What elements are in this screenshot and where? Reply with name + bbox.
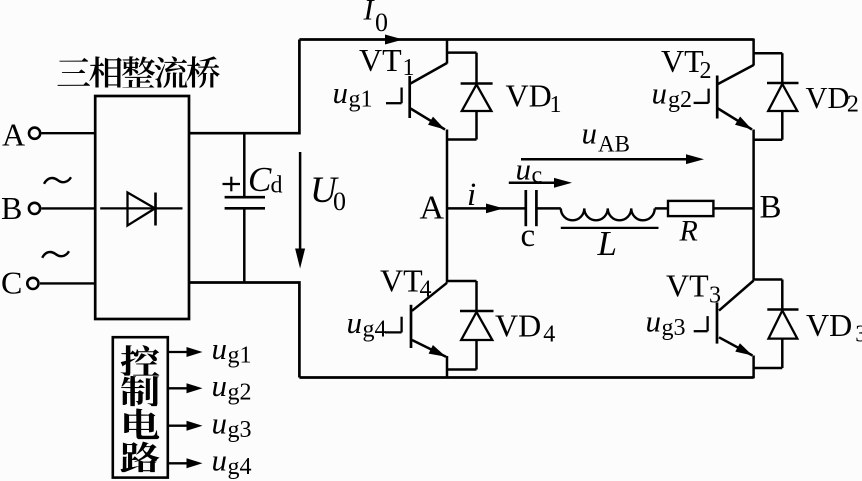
wire: right bridge leg lower segment — [752, 356, 755, 379]
svg-text:g4: g4 — [228, 454, 252, 480]
AC tilde symbol between A and B — [44, 177, 71, 184]
title text 三相整流桥 (three-phase rectifier bridge) — [57, 58, 90, 86]
wire: left bridge leg middle segment (node A leg) — [446, 130, 449, 283]
wire: bottom DC rail — [299, 376, 753, 379]
wire: left bridge leg lower segment — [446, 356, 449, 378]
wire: B-phase input lead — [42, 207, 96, 209]
svg-text:VT: VT — [661, 43, 704, 79]
wire: inductor to resistor — [655, 207, 668, 210]
svg-text:u: u — [212, 406, 228, 441]
inductor core line — [561, 227, 659, 229]
terminal C circle — [27, 278, 38, 289]
diode VD2 (anti-parallel) — [754, 53, 799, 140]
control circuit box 控制电路 — [113, 337, 168, 477]
transistor VT4 (IGBT) — [385, 283, 447, 357]
voltage arrow uc across capacitor — [509, 182, 566, 185]
svg-text:A: A — [2, 117, 25, 153]
gate signal output arrow ug3 from control box — [168, 425, 187, 427]
svg-text:2: 2 — [700, 58, 712, 84]
svg-text:u: u — [347, 305, 363, 340]
svg-text:g2: g2 — [228, 380, 252, 406]
svg-text:VT: VT — [359, 42, 402, 78]
svg-text:VD: VD — [806, 81, 850, 115]
transistor VT3 (IGBT) — [694, 281, 754, 356]
wire: DC- from rectifier down to bottom rail — [189, 283, 299, 378]
svg-text:c: c — [532, 163, 543, 189]
plus polarity mark for Cd — [223, 183, 241, 185]
wire: top DC rail — [299, 38, 753, 41]
svg-text:B: B — [1, 190, 22, 226]
voltage arrow U0 (DC link voltage, pointing down) — [299, 152, 302, 262]
svg-text:g1: g1 — [228, 343, 252, 369]
diode VD1 (anti-parallel) — [447, 53, 493, 140]
wire: capacitor to inductor — [536, 207, 560, 210]
current arrow I0 on top rail — [385, 35, 403, 45]
svg-text:d: d — [271, 173, 283, 199]
wire: resistor to node B — [713, 207, 753, 210]
wire: right bridge leg upper segment — [752, 39, 755, 66]
diode VD4 (anti-parallel) — [447, 281, 494, 370]
svg-text:A: A — [420, 190, 445, 227]
svg-text:1: 1 — [550, 92, 562, 118]
svg-text:3: 3 — [709, 283, 721, 309]
svg-text:g3: g3 — [228, 417, 252, 443]
inductor L coil — [561, 208, 655, 220]
transistor VT1 (IGBT) — [386, 63, 447, 130]
svg-text:u: u — [212, 331, 228, 366]
text 控制电路 (control circuit), vertical — [121, 345, 160, 376]
resistor R (rectangle) — [668, 201, 713, 216]
svg-text:L: L — [597, 224, 617, 263]
diode symbol inside rectifier box — [100, 207, 182, 209]
svg-text:1: 1 — [403, 55, 415, 81]
wire: DC+ from rectifier up to top rail — [189, 40, 299, 134]
transistor VT2 (IGBT) — [694, 65, 754, 130]
svg-text:i: i — [467, 177, 476, 213]
svg-text:u: u — [212, 443, 228, 478]
terminal A circle — [29, 128, 40, 139]
svg-text:u: u — [516, 152, 532, 187]
svg-text:g3: g3 — [662, 315, 686, 341]
svg-text:u: u — [646, 304, 662, 339]
svg-text:R: R — [679, 215, 698, 248]
svg-text:u: u — [582, 116, 598, 151]
gate signal output arrow ug2 from control box — [168, 387, 187, 389]
wire: left bridge leg upper segment — [446, 39, 449, 64]
svg-text:c: c — [521, 218, 536, 254]
capacitor Cd lower lead wire — [243, 208, 246, 283]
svg-text:0: 0 — [375, 8, 388, 37]
svg-text:0: 0 — [333, 187, 346, 216]
voltage arrow uAB across load — [521, 158, 698, 161]
AC tilde symbol between B and C — [42, 251, 69, 257]
gate signal output arrow ug1 from control box — [168, 351, 187, 353]
diode VD3 (anti-parallel) — [754, 280, 799, 369]
capacitor c (load, series) — [524, 190, 527, 226]
svg-text:B: B — [760, 190, 782, 226]
svg-text:C: C — [1, 265, 22, 301]
terminal B circle — [29, 203, 40, 214]
svg-text:g1: g1 — [349, 87, 373, 113]
svg-text:u: u — [333, 75, 349, 110]
svg-text:3: 3 — [855, 322, 862, 348]
wire: A-phase input lead — [42, 132, 96, 134]
svg-text:VD: VD — [506, 77, 552, 113]
gate signal output arrow ug4 from control box — [168, 462, 187, 464]
svg-text:g4: g4 — [363, 317, 387, 343]
svg-text:2: 2 — [847, 92, 859, 118]
svg-text:C: C — [248, 160, 272, 199]
three-phase rectifier bridge box — [95, 96, 189, 319]
wire: C-phase input lead — [40, 282, 95, 284]
capacitor Cd upper lead wire — [243, 133, 246, 197]
svg-text:u: u — [652, 76, 668, 111]
wire: right bridge leg middle segment (node B leg) — [752, 130, 755, 281]
svg-text:VT: VT — [380, 262, 423, 298]
current arrow i on load wire — [486, 204, 504, 214]
wire: node A to load capacitor — [447, 207, 526, 210]
capacitor Cd plates — [225, 196, 265, 199]
svg-text:VT: VT — [666, 267, 709, 303]
svg-text:g2: g2 — [668, 87, 692, 113]
svg-text:AB: AB — [598, 132, 630, 157]
svg-text:u: u — [212, 368, 228, 403]
svg-text:4: 4 — [420, 277, 432, 303]
svg-text:VD: VD — [806, 307, 852, 343]
svg-text:VD: VD — [495, 307, 541, 343]
svg-text:4: 4 — [543, 322, 555, 348]
